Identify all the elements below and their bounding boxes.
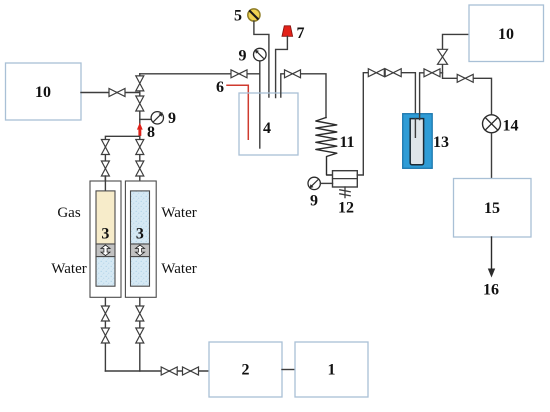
valve H cell outlet <box>285 70 301 78</box>
thermowell wire into cell <box>259 74 261 148</box>
left inner cylinder water section <box>96 257 115 287</box>
coil 11 <box>316 118 337 176</box>
wire cell outlet to coil <box>281 74 326 118</box>
right piston 3 <box>131 244 150 257</box>
svg-text:2: 2 <box>242 362 250 379</box>
valve H top line before cell <box>231 70 247 78</box>
valve V7 below left column <box>101 306 109 321</box>
dip tube wire into tube <box>414 119 416 138</box>
right column outer vessel <box>125 181 156 297</box>
svg-text:6: 6 <box>216 79 224 96</box>
gauge 5 (yellow) <box>248 9 260 21</box>
svg-text:10: 10 <box>498 26 514 43</box>
valve H before 14 <box>457 74 473 82</box>
svg-text:9: 9 <box>239 48 247 65</box>
rupture disc 7 (red cone) <box>282 26 293 37</box>
wire tube outlet up <box>420 73 443 120</box>
valve H after regulator 1 <box>368 69 384 77</box>
red dip line 6 <box>227 85 248 139</box>
wire gauge9 to regulator <box>320 182 332 184</box>
right inner cylinder water top section <box>131 191 150 244</box>
wire left branch to left column <box>105 136 139 191</box>
valve V3 left column top <box>101 140 109 155</box>
valve V6 right column top <box>136 161 144 176</box>
left column wire through top <box>104 176 106 191</box>
svg-text:1: 1 <box>328 362 336 379</box>
svg-text:Water: Water <box>161 261 196 277</box>
wire gauge5 to cell <box>254 21 269 97</box>
outlet arrow 16 <box>491 237 493 270</box>
svg-text:5: 5 <box>234 8 242 25</box>
right piston double arrow <box>136 245 145 256</box>
test tube in 13 <box>410 119 423 165</box>
wire box10L to main vertical <box>81 92 140 94</box>
svg-text:3: 3 <box>136 226 144 243</box>
svg-text:9: 9 <box>168 110 176 127</box>
right inner cylinder water bottom section <box>131 257 150 287</box>
left inner cylinder gas section <box>96 191 115 244</box>
valve V5 right column top <box>136 140 144 155</box>
left piston 3 <box>96 244 115 257</box>
svg-text:12: 12 <box>338 200 354 217</box>
svg-text:15: 15 <box>484 200 500 217</box>
regulator spring symbol <box>344 187 346 198</box>
svg-text:7: 7 <box>297 25 305 42</box>
valve V9 below right column <box>136 306 144 321</box>
gauge 9 top (on cell) <box>259 61 261 74</box>
sample vessel 13 (blue bath) <box>403 114 433 169</box>
wire bottom horizontal to box 2 <box>105 370 209 372</box>
svg-text:4: 4 <box>263 120 271 137</box>
valve H bottom 1 <box>161 367 177 375</box>
left piston double arrow <box>101 245 110 256</box>
svg-text:8: 8 <box>147 124 155 141</box>
red arrow 8 (check valve) <box>137 123 143 136</box>
valve H after regulator 2 <box>385 69 401 77</box>
box 15 <box>454 179 532 238</box>
valve V1 main line <box>136 76 144 91</box>
wire box2 to box1 <box>282 369 295 371</box>
svg-text:14: 14 <box>503 118 519 135</box>
valve V4 left column top <box>101 161 109 176</box>
svg-text:16: 16 <box>483 282 499 299</box>
valve V10 below right column <box>136 328 144 343</box>
gauge 9 mid-left <box>151 112 163 124</box>
svg-text:11: 11 <box>339 134 354 151</box>
valve H (box10L line) <box>109 89 125 97</box>
box 10 left (gas cylinder unit) <box>6 63 82 120</box>
svg-text:10: 10 <box>35 84 51 101</box>
wire box10R down <box>443 34 492 114</box>
svg-text:13: 13 <box>433 134 449 151</box>
svg-text:Water: Water <box>51 261 86 277</box>
gauge 9 at regulator <box>308 177 320 189</box>
left column outer vessel <box>90 181 121 297</box>
wire top horizontal to cell <box>140 73 260 75</box>
wire main vertical left line <box>139 74 141 371</box>
svg-text:Gas: Gas <box>57 205 80 221</box>
svg-text:Water: Water <box>161 205 196 221</box>
svg-text:9: 9 <box>310 193 318 210</box>
valve V below box10R <box>438 49 448 64</box>
box 10 right <box>469 5 544 62</box>
valve H bottom 2 <box>183 367 199 375</box>
gauge 9 mid-left branch wire <box>140 118 152 120</box>
valve V2 main line <box>136 96 144 111</box>
valve V8 below left column <box>101 328 109 343</box>
box 1 <box>295 342 368 397</box>
flow valve 14 (circle X) <box>483 115 501 133</box>
wire right column vertical to bottom <box>104 286 106 371</box>
box 2 pump <box>209 342 282 397</box>
back pressure regulator 12 <box>333 171 358 187</box>
svg-text:3: 3 <box>101 226 109 243</box>
valve H tube outlet <box>424 69 440 77</box>
wire regulator out up and right <box>357 73 415 175</box>
wire cone7 to cell <box>276 36 288 97</box>
cell box 4 <box>239 93 298 155</box>
wire 14 to box 15 <box>491 133 493 179</box>
